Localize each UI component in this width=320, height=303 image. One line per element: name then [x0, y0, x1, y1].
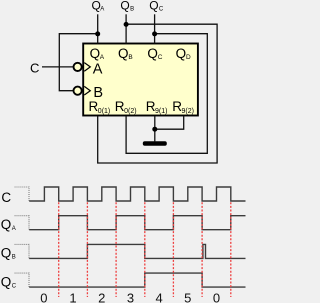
svg-text:0(1): 0(1)	[98, 108, 110, 115]
svg-text:5: 5	[184, 290, 191, 303]
svg-text:Q: Q	[149, 0, 158, 12]
svg-text:0: 0	[40, 290, 47, 303]
svg-text:Q: Q	[1, 217, 12, 232]
svg-text:0(2): 0(2)	[124, 108, 136, 115]
svg-text:C: C	[158, 54, 163, 61]
svg-text:D: D	[186, 54, 191, 61]
svg-text:C: C	[12, 283, 17, 289]
svg-text:9(1): 9(1)	[155, 108, 167, 115]
svg-text:A: A	[12, 226, 16, 232]
svg-text:B: B	[128, 54, 132, 61]
svg-text:9(2): 9(2)	[182, 108, 194, 115]
svg-text:A: A	[100, 54, 105, 61]
svg-text:C: C	[1, 190, 11, 205]
svg-text:C: C	[30, 60, 39, 75]
svg-text:B: B	[93, 85, 103, 101]
svg-text:C: C	[159, 6, 164, 12]
svg-text:Q: Q	[1, 274, 12, 289]
svg-text:Q: Q	[147, 46, 158, 61]
svg-text:Q: Q	[120, 0, 129, 12]
svg-text:3: 3	[127, 290, 134, 303]
svg-text:4: 4	[155, 290, 162, 303]
svg-text:A: A	[93, 61, 103, 77]
svg-text:Q: Q	[1, 246, 12, 261]
svg-text:A: A	[100, 6, 104, 12]
svg-text:1: 1	[69, 290, 76, 303]
svg-text:B: B	[12, 255, 16, 261]
svg-text:0: 0	[213, 290, 220, 303]
svg-text:Q: Q	[118, 46, 129, 61]
svg-text:Q: Q	[90, 46, 101, 61]
svg-text:2: 2	[98, 290, 105, 303]
svg-text:Q: Q	[176, 46, 187, 61]
svg-text:B: B	[130, 6, 134, 12]
